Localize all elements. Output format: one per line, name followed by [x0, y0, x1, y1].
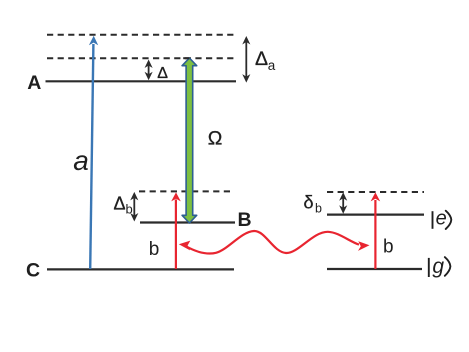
svg-text:b: b	[149, 239, 160, 260]
ket g label	[429, 255, 451, 278]
svg-text:a: a	[268, 58, 276, 73]
svg-text:B: B	[237, 209, 251, 231]
label b left	[149, 239, 160, 260]
level e line	[327, 214, 424, 216]
label B	[237, 209, 251, 231]
label delta_b	[304, 192, 323, 215]
delta_b measure arrow (e to dashed above)	[339, 192, 347, 213]
dashed virtual level above B	[139, 190, 234, 192]
label Delta_a	[255, 48, 276, 73]
red arrow b right	[371, 192, 381, 269]
ket e label	[433, 207, 452, 229]
label b right	[383, 236, 394, 257]
Delta measure arrow (A to second dashed)	[145, 60, 153, 81]
Delta_b measure arrow (B to dashed above)	[130, 192, 138, 222]
svg-text:a: a	[73, 145, 89, 176]
svg-text:Ω: Ω	[208, 128, 223, 150]
svg-text:Δ: Δ	[157, 65, 168, 82]
svg-text:Δ: Δ	[114, 193, 126, 213]
svg-text:b: b	[315, 201, 322, 215]
svg-text:b: b	[383, 236, 394, 257]
green double block arrow Omega	[182, 58, 197, 223]
level g line	[327, 268, 422, 270]
svg-text:Δ: Δ	[255, 48, 268, 70]
dash overlay on green arrow tip	[183, 57, 189, 59]
svg-text:g: g	[432, 255, 444, 278]
dashed virtual level above e	[327, 191, 424, 193]
level B line	[140, 221, 235, 223]
label C	[26, 260, 40, 282]
svg-text:C: C	[26, 260, 40, 282]
level C line	[47, 268, 234, 270]
label Delta_b	[114, 193, 133, 216]
svg-text:b: b	[126, 202, 133, 217]
label A	[27, 72, 41, 94]
label Delta	[157, 65, 168, 82]
level A line	[46, 80, 237, 82]
virtual level dashed line top	[47, 34, 234, 36]
red wavy coupling line	[179, 231, 370, 254]
svg-text:δ: δ	[304, 192, 314, 212]
label a (pump)	[73, 145, 89, 176]
Delta_a measure arrow (A to top dashed)	[242, 36, 250, 83]
red arrow b left	[171, 192, 181, 269]
label Omega	[208, 128, 223, 150]
blue arrow a	[89, 36, 98, 269]
virtual level dashed line second	[47, 57, 234, 59]
svg-text:A: A	[27, 72, 41, 94]
